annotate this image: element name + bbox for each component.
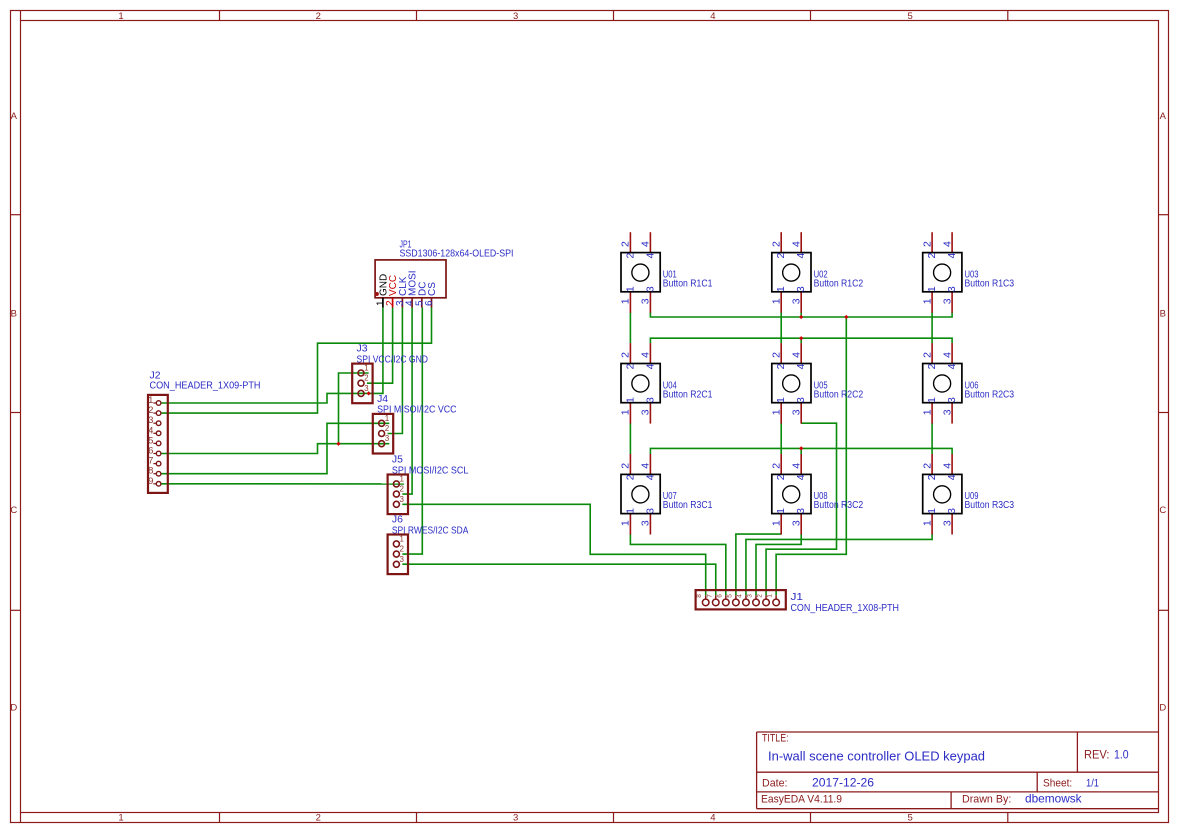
svg-text:1: 1 bbox=[624, 286, 636, 292]
svg-text:2: 2 bbox=[775, 474, 787, 480]
svg-text:3: 3 bbox=[941, 520, 953, 526]
svg-text:C: C bbox=[1159, 505, 1166, 516]
svg-text:4: 4 bbox=[640, 352, 652, 358]
svg-text:1: 1 bbox=[921, 520, 933, 526]
svg-text:1: 1 bbox=[926, 397, 938, 403]
svg-text:4: 4 bbox=[736, 594, 743, 598]
svg-text:2: 2 bbox=[620, 241, 632, 247]
svg-text:8: 8 bbox=[696, 594, 703, 598]
svg-text:3: 3 bbox=[795, 397, 807, 403]
svg-text:3: 3 bbox=[640, 409, 652, 415]
svg-text:4: 4 bbox=[710, 813, 715, 824]
svg-text:2: 2 bbox=[385, 424, 390, 433]
svg-text:3: 3 bbox=[795, 508, 807, 514]
svg-text:3: 3 bbox=[791, 409, 803, 415]
svg-text:Drawn By:: Drawn By: bbox=[962, 794, 1011, 806]
svg-text:Date:: Date: bbox=[762, 777, 788, 789]
svg-text:1/1: 1/1 bbox=[1086, 777, 1099, 789]
svg-text:J1: J1 bbox=[791, 592, 804, 603]
svg-text:SPI MISOI/I2C VCC: SPI MISOI/I2C VCC bbox=[377, 405, 457, 416]
svg-text:Button R3C1: Button R3C1 bbox=[663, 500, 713, 511]
svg-text:4: 4 bbox=[795, 253, 807, 259]
svg-text:dbemowsk: dbemowsk bbox=[1025, 792, 1083, 806]
svg-text:2017-12-26: 2017-12-26 bbox=[812, 775, 874, 789]
svg-text:3: 3 bbox=[747, 594, 754, 598]
svg-text:Button R1C2: Button R1C2 bbox=[814, 278, 864, 289]
svg-text:J3: J3 bbox=[357, 344, 368, 355]
svg-text:C: C bbox=[10, 505, 17, 516]
svg-text:2: 2 bbox=[624, 363, 636, 369]
svg-text:2: 2 bbox=[771, 463, 783, 469]
svg-text:3: 3 bbox=[644, 508, 656, 514]
svg-text:3: 3 bbox=[400, 555, 405, 564]
svg-text:1: 1 bbox=[771, 520, 783, 526]
svg-text:2: 2 bbox=[771, 241, 783, 247]
svg-text:A: A bbox=[11, 111, 18, 122]
svg-text:4: 4 bbox=[791, 241, 803, 247]
svg-text:6: 6 bbox=[424, 300, 435, 306]
svg-text:2: 2 bbox=[775, 363, 787, 369]
svg-text:4: 4 bbox=[640, 241, 652, 247]
svg-text:3: 3 bbox=[385, 434, 390, 443]
svg-text:SSD1306-128x64-OLED-SPI: SSD1306-128x64-OLED-SPI bbox=[400, 249, 514, 260]
svg-text:CON_HEADER_1X09-PTH: CON_HEADER_1X09-PTH bbox=[150, 381, 261, 392]
svg-text:3: 3 bbox=[795, 286, 807, 292]
svg-text:1: 1 bbox=[620, 298, 632, 304]
svg-text:2: 2 bbox=[364, 374, 369, 383]
svg-text:1.0: 1.0 bbox=[1114, 750, 1129, 762]
svg-text:4: 4 bbox=[946, 363, 958, 369]
svg-text:2: 2 bbox=[775, 253, 787, 259]
svg-text:3: 3 bbox=[644, 286, 656, 292]
svg-text:4: 4 bbox=[791, 352, 803, 358]
svg-text:2: 2 bbox=[316, 813, 321, 824]
svg-text:SPI RWES/I2C SDA: SPI RWES/I2C SDA bbox=[392, 525, 469, 536]
svg-text:3: 3 bbox=[946, 397, 958, 403]
svg-text:2: 2 bbox=[620, 352, 632, 358]
svg-text:Button R2C1: Button R2C1 bbox=[663, 389, 713, 400]
svg-text:4: 4 bbox=[946, 474, 958, 480]
svg-text:2: 2 bbox=[620, 463, 632, 469]
svg-text:2: 2 bbox=[926, 474, 938, 480]
svg-text:4: 4 bbox=[710, 11, 715, 22]
svg-text:9: 9 bbox=[148, 476, 153, 487]
svg-text:1: 1 bbox=[767, 594, 774, 598]
svg-text:EasyEDA V4.11.9: EasyEDA V4.11.9 bbox=[761, 794, 842, 806]
svg-text:5: 5 bbox=[726, 594, 733, 598]
svg-text:4: 4 bbox=[795, 474, 807, 480]
svg-text:2: 2 bbox=[926, 363, 938, 369]
svg-text:2: 2 bbox=[921, 241, 933, 247]
svg-text:4: 4 bbox=[644, 253, 656, 259]
svg-text:3: 3 bbox=[513, 813, 518, 824]
svg-text:1: 1 bbox=[624, 508, 636, 514]
svg-text:2: 2 bbox=[400, 485, 405, 494]
svg-text:B: B bbox=[1160, 309, 1166, 320]
svg-text:SPI MOSI/I2C SCL: SPI MOSI/I2C SCL bbox=[392, 465, 469, 476]
svg-text:2: 2 bbox=[926, 253, 938, 259]
svg-text:D: D bbox=[1159, 703, 1166, 714]
svg-text:Button R3C2: Button R3C2 bbox=[814, 500, 864, 511]
svg-text:1: 1 bbox=[926, 286, 938, 292]
svg-text:REV:: REV: bbox=[1084, 750, 1110, 762]
svg-text:3: 3 bbox=[644, 397, 656, 403]
svg-text:1: 1 bbox=[921, 298, 933, 304]
svg-text:Button R2C2: Button R2C2 bbox=[814, 389, 864, 400]
svg-text:1: 1 bbox=[118, 11, 123, 22]
svg-text:Button R2C3: Button R2C3 bbox=[965, 389, 1015, 400]
svg-text:J4: J4 bbox=[377, 394, 388, 405]
svg-text:5: 5 bbox=[908, 813, 913, 824]
svg-text:3: 3 bbox=[364, 384, 369, 393]
svg-text:A: A bbox=[1160, 111, 1167, 122]
svg-text:3: 3 bbox=[946, 508, 958, 514]
svg-text:3: 3 bbox=[513, 11, 518, 22]
svg-text:2: 2 bbox=[400, 545, 405, 554]
svg-text:1: 1 bbox=[620, 409, 632, 415]
svg-text:1: 1 bbox=[624, 397, 636, 403]
svg-text:1: 1 bbox=[775, 397, 787, 403]
svg-text:1: 1 bbox=[775, 286, 787, 292]
svg-text:1: 1 bbox=[926, 508, 938, 514]
svg-text:Button R1C1: Button R1C1 bbox=[663, 278, 713, 289]
svg-text:3: 3 bbox=[640, 520, 652, 526]
svg-text:4: 4 bbox=[644, 363, 656, 369]
svg-text:1: 1 bbox=[771, 298, 783, 304]
svg-text:1: 1 bbox=[775, 508, 787, 514]
svg-text:4: 4 bbox=[791, 463, 803, 469]
svg-text:B: B bbox=[11, 309, 17, 320]
svg-text:2: 2 bbox=[624, 474, 636, 480]
svg-text:Sheet:: Sheet: bbox=[1043, 777, 1072, 789]
svg-text:2: 2 bbox=[757, 594, 764, 598]
svg-text:4: 4 bbox=[640, 463, 652, 469]
svg-text:J6: J6 bbox=[392, 515, 403, 526]
svg-text:CS: CS bbox=[427, 282, 438, 296]
svg-text:SPI VCC/I2C GND: SPI VCC/I2C GND bbox=[357, 354, 429, 365]
svg-text:4: 4 bbox=[795, 363, 807, 369]
svg-text:2: 2 bbox=[921, 463, 933, 469]
svg-text:2: 2 bbox=[316, 11, 321, 22]
svg-text:4: 4 bbox=[941, 463, 953, 469]
svg-text:In-wall scene controller OLED: In-wall scene controller OLED keypad bbox=[768, 749, 985, 764]
svg-text:4: 4 bbox=[941, 241, 953, 247]
svg-text:Button R1C3: Button R1C3 bbox=[965, 278, 1015, 289]
svg-text:2: 2 bbox=[771, 352, 783, 358]
svg-text:3: 3 bbox=[640, 298, 652, 304]
svg-text:6: 6 bbox=[716, 594, 723, 598]
svg-text:CON_HEADER_1X08-PTH: CON_HEADER_1X08-PTH bbox=[791, 603, 900, 614]
svg-text:4: 4 bbox=[644, 474, 656, 480]
svg-text:3: 3 bbox=[946, 286, 958, 292]
svg-text:1: 1 bbox=[921, 409, 933, 415]
svg-text:TITLE:: TITLE: bbox=[762, 733, 789, 745]
svg-text:7: 7 bbox=[706, 594, 713, 598]
svg-text:Button R3C3: Button R3C3 bbox=[965, 500, 1015, 511]
svg-text:3: 3 bbox=[941, 298, 953, 304]
svg-text:1: 1 bbox=[771, 409, 783, 415]
svg-text:3: 3 bbox=[791, 298, 803, 304]
svg-text:5: 5 bbox=[908, 11, 913, 22]
svg-text:3: 3 bbox=[941, 409, 953, 415]
svg-text:3: 3 bbox=[791, 520, 803, 526]
svg-text:D: D bbox=[10, 703, 17, 714]
svg-text:4: 4 bbox=[941, 352, 953, 358]
svg-text:4: 4 bbox=[946, 253, 958, 259]
svg-text:1: 1 bbox=[620, 520, 632, 526]
svg-text:1: 1 bbox=[118, 813, 123, 824]
svg-text:J5: J5 bbox=[392, 455, 403, 466]
svg-text:3: 3 bbox=[400, 495, 405, 504]
svg-text:2: 2 bbox=[921, 352, 933, 358]
svg-text:2: 2 bbox=[624, 253, 636, 259]
